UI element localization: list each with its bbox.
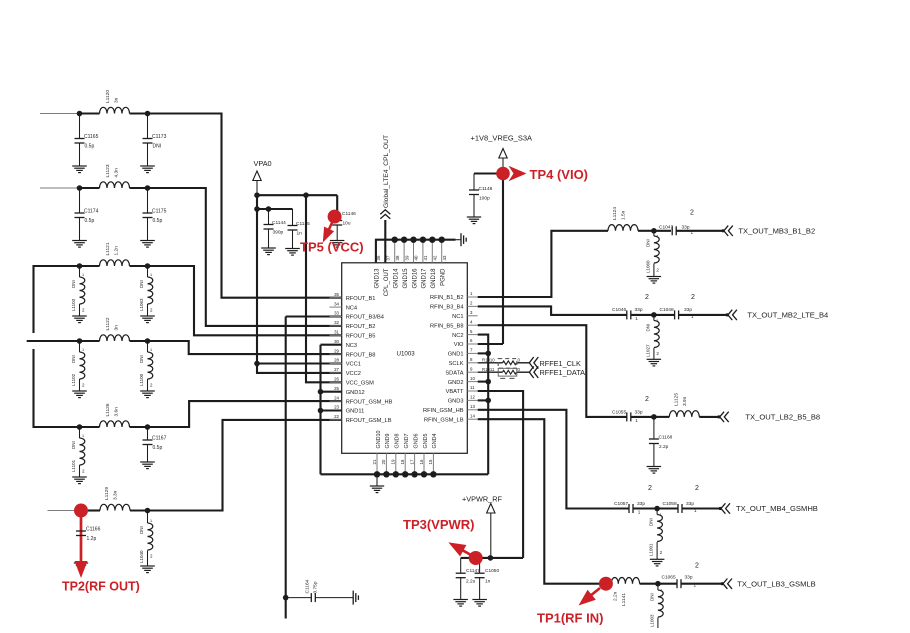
svg-text:C1065: C1065 (662, 575, 676, 581)
node row1 right junction (145, 111, 151, 117)
svg-text:15: 15 (428, 459, 433, 464)
svg-text:0.5p: 0.5p (85, 218, 95, 224)
wire +1V8 stem (502, 158, 504, 174)
node row4 right junction (145, 338, 151, 344)
wire RFIN_GSM_LB pin14 to net5 (478, 419, 612, 584)
ground bottom bus (370, 486, 384, 493)
svg-text:2.2n: 2.2n (612, 591, 618, 601)
wire top ground bus (376, 240, 456, 263)
wire +VPWR stem (490, 513, 492, 558)
svg-text:DNI: DNI (139, 280, 144, 288)
svg-text:C1050: C1050 (485, 568, 499, 574)
wire to VCC2 pin27 (257, 364, 342, 373)
svg-text:23: 23 (334, 405, 339, 410)
wire VBATT pin11 to +VPWR (478, 391, 523, 558)
svg-text:GND8: GND8 (395, 434, 401, 449)
inductor L1103 (79, 266, 81, 277)
svg-text:GND18: GND18 (431, 268, 437, 289)
capacitor C1055 (627, 412, 631, 421)
node net2 junction (651, 312, 657, 318)
svg-text:TP2(RF OUT): TP2(RF OUT) (62, 580, 140, 594)
inductor L1121 (100, 260, 130, 266)
svg-text:NC2: NC2 (452, 333, 463, 339)
pin 23 GND11 (330, 410, 342, 412)
svg-text:29: 29 (334, 348, 339, 353)
pin 32 RFOUT_B2 (330, 325, 342, 327)
svg-text:1: 1 (638, 510, 641, 515)
wire net4 (633, 507, 657, 509)
svg-text:GND1: GND1 (448, 352, 464, 358)
svg-text:L1102: L1102 (71, 373, 76, 386)
node net4 junction (654, 506, 660, 512)
ground (140, 462, 155, 469)
svg-text:0.5p: 0.5p (153, 218, 163, 224)
node top bus pin38 (392, 237, 398, 243)
test point TP4 marker (496, 167, 510, 181)
svg-text:C1047: C1047 (659, 224, 673, 230)
capacitor C1174 (79, 188, 81, 213)
capacitor C1148 (473, 174, 475, 191)
node top bus pin41 (420, 237, 426, 243)
svg-text:DNI: DNI (71, 441, 76, 449)
wire RFIN_B3_B4 pin2 to net2 (478, 306, 627, 315)
svg-text:DNI: DNI (645, 239, 650, 247)
svg-text:GND3: GND3 (448, 399, 464, 405)
ground (650, 559, 665, 566)
svg-text:1: 1 (150, 348, 152, 352)
node C1144 tap (266, 206, 272, 212)
svg-text:C1164: C1164 (305, 579, 311, 593)
svg-text:2.2u: 2.2u (466, 578, 476, 584)
pin 1 RFIN_B1_B2 (467, 296, 477, 298)
inductor L1001 (656, 509, 658, 515)
wire to VCC_GSM pin26 (306, 195, 342, 382)
svg-text:39: 39 (404, 255, 409, 260)
wire RFIN_GSM_HB pin13 to net4 (478, 410, 629, 509)
pin 17 GND6 (414, 453, 416, 474)
capacitor C1145 (292, 209, 294, 226)
svg-text:L1060: L1060 (645, 260, 650, 273)
ground (467, 217, 481, 224)
svg-text:0.75p: 0.75p (313, 581, 319, 593)
svg-text:RFIN_B3_B4: RFIN_B3_B4 (430, 305, 464, 311)
svg-text:RFOUT_B5: RFOUT_B5 (346, 334, 376, 340)
svg-text:41: 41 (423, 255, 428, 260)
svg-text:2: 2 (695, 485, 699, 492)
svg-text:L1101: L1101 (71, 459, 76, 472)
inductor L1101 (79, 427, 81, 438)
node row3 left junction (77, 263, 83, 269)
wire row1 lead-in (40, 113, 80, 115)
pin 38 GND14 (394, 240, 396, 263)
svg-text:GND6: GND6 (413, 434, 419, 449)
svg-text:19: 19 (391, 459, 396, 464)
svg-text:1.2n: 1.2n (114, 246, 120, 256)
svg-text:27: 27 (334, 367, 339, 372)
svg-text:GND16: GND16 (412, 268, 418, 289)
wire to C1050 (479, 558, 481, 573)
pin 10 GND2 (467, 381, 477, 383)
off-page connector TX_OUT_LB3_GSMLB (723, 579, 732, 589)
svg-text:1: 1 (635, 418, 638, 423)
test point TP3 marker (469, 551, 483, 565)
svg-text:33p: 33p (635, 409, 643, 415)
svg-text:TX_OUT_MB2_LTE_B4: TX_OUT_MB2_LTE_B4 (747, 311, 828, 320)
node C1164 junction (283, 595, 289, 601)
inductor L1040 (147, 511, 149, 524)
op-amp U1003 body (342, 263, 468, 454)
svg-text:TP3(VPWR): TP3(VPWR) (403, 517, 475, 532)
svg-text:390p: 390p (273, 230, 284, 236)
test point TP3 arrow (462, 550, 472, 555)
pin 15 GND4 (432, 453, 434, 474)
svg-text:17: 17 (409, 459, 414, 464)
wire Global_LTE4_CPL_OUT to CPL_OUT pin37 (384, 220, 386, 263)
svg-text:DNI: DNI (71, 280, 76, 288)
svg-text:DNI: DNI (139, 526, 144, 534)
node top bus pin40 (410, 237, 416, 243)
inductor L1122 (100, 335, 130, 341)
ground (140, 566, 155, 573)
capacitor C1050 (475, 573, 485, 578)
pin 2 RFIN_B3_B4 (467, 305, 477, 307)
svg-text:RFOUT_B1: RFOUT_B1 (346, 296, 376, 302)
svg-text:18: 18 (400, 459, 405, 464)
pin 35 RFOUT_B1 (330, 297, 342, 299)
svg-text:C1167: C1167 (152, 436, 167, 442)
node top bus pin43 (439, 237, 445, 243)
wire GND3 pin12 branch (478, 399, 489, 401)
inductor L1129 (88, 509, 100, 511)
wire VPA0 rail right (257, 194, 337, 196)
off-page connector RFFE1_CLK (529, 357, 538, 369)
pin 8 SCLK (467, 362, 477, 364)
wire row4 main (80, 340, 100, 342)
node row1 left junction (77, 111, 83, 117)
wire row3 to RFOUT_B5 pin31 (148, 266, 342, 335)
svg-text:1: 1 (150, 273, 152, 277)
svg-text:1n: 1n (297, 231, 303, 237)
svg-text:C1145: C1145 (296, 221, 310, 227)
wire right ground rail (487, 353, 489, 474)
svg-text:VCC_GSM: VCC_GSM (346, 381, 374, 387)
wire GND1 pin7 branch (478, 352, 489, 354)
svg-text:2: 2 (691, 294, 695, 301)
node row2 right junction (145, 185, 151, 191)
svg-text:Global_LTE4_CPL_OUT: Global_LTE4_CPL_OUT (383, 135, 390, 208)
svg-text:RFOUT_B3/B4: RFOUT_B3/B4 (346, 315, 384, 321)
svg-text:RFIN_B5_B8: RFIN_B5_B8 (430, 323, 464, 329)
node row2 left junction (77, 185, 83, 191)
svg-text:C1055: C1055 (612, 409, 626, 415)
svg-text:3.6n: 3.6n (114, 407, 120, 417)
svg-text:10u: 10u (343, 221, 351, 227)
svg-text:TX_OUT_MB4_GSMHB: TX_OUT_MB4_GSMHB (736, 504, 818, 513)
test point TP4 arrow (509, 166, 527, 181)
svg-text:DNI: DNI (649, 518, 654, 526)
wire to top bus ground (456, 239, 462, 241)
svg-text:RFIN_GSM_LB: RFIN_GSM_LB (424, 417, 464, 423)
pin 27 VCC2 (330, 372, 342, 374)
svg-text:L1100: L1100 (139, 373, 144, 386)
capacitor C1173 (147, 114, 149, 139)
svg-text:TP5 (VCC): TP5 (VCC) (300, 240, 364, 255)
pin 29 RFOUT_B8 (330, 353, 342, 355)
node GND2 junction (485, 379, 491, 385)
svg-text:33p: 33p (686, 501, 694, 507)
svg-text:PGND: PGND (441, 268, 447, 286)
svg-text:GND15: GND15 (403, 268, 409, 289)
pin 41 GND17 (422, 240, 424, 263)
wire decoupling branch (257, 208, 293, 210)
wire bottom ground bus (321, 473, 489, 475)
wire GND2 pin10 branch (478, 381, 489, 383)
node bottom bus pin21 (374, 471, 380, 477)
svg-text:1n: 1n (485, 578, 491, 584)
ground sideways top bus (461, 233, 466, 246)
svg-text:DNI: DNI (139, 355, 144, 363)
svg-text:RFFE1_CLK: RFFE1_CLK (540, 359, 581, 368)
wire to C1164 (286, 597, 312, 599)
svg-text:25: 25 (334, 386, 339, 391)
wire left ground rail (319, 345, 321, 475)
pin 22 RFOUT_GSM_LB (330, 419, 342, 421)
svg-text:C1175: C1175 (152, 209, 167, 215)
svg-text:DNI: DNI (649, 593, 654, 601)
inductor L1100 (147, 341, 149, 352)
svg-text:GND5: GND5 (423, 434, 429, 449)
wire VIO rail up to TP4 (502, 174, 504, 345)
svg-text:C1165: C1165 (84, 134, 99, 140)
svg-text:C1144: C1144 (272, 220, 286, 226)
svg-text:33p: 33p (685, 575, 693, 581)
pin 36 GND13 (375, 240, 377, 263)
svg-text:L1063: L1063 (139, 298, 144, 311)
wire row5 main (80, 426, 100, 428)
svg-text:2: 2 (648, 485, 652, 492)
svg-text:33p: 33p (682, 224, 690, 230)
wire net5 to C1065 (658, 583, 677, 585)
pin 24 RFOUT_GSM_HB (330, 400, 342, 402)
wire net4 out (682, 507, 721, 509)
svg-text:43: 43 (442, 255, 447, 260)
pin 34 NC4 (330, 306, 342, 308)
wire row3 left branch down to row5 (34, 266, 80, 333)
svg-text:C1148: C1148 (479, 186, 493, 192)
svg-text:L1001: L1001 (649, 543, 654, 556)
capacitor C1144 (268, 209, 270, 225)
svg-text:TP1(RF IN): TP1(RF IN) (537, 611, 603, 626)
svg-text:TX_OUT_MB3_B1_B2: TX_OUT_MB3_B1_B2 (738, 227, 815, 236)
svg-text:L1141: L1141 (621, 593, 627, 606)
off-page connector RFFE1_DATA (529, 366, 538, 378)
capacitor C1058 (678, 504, 682, 513)
svg-text:RFOUT_B8: RFOUT_B8 (346, 352, 376, 358)
svg-text:L1125: L1125 (673, 393, 679, 406)
wire C1164 to ground (315, 597, 353, 599)
wire to C1148 (474, 172, 503, 174)
svg-text:33p: 33p (637, 501, 645, 507)
svg-text:RFIN_GSM_HB: RFIN_GSM_HB (423, 408, 464, 414)
node bottom bus pin17 (411, 471, 417, 477)
wire row1 to RFOUT_B1 pin35 (148, 114, 342, 298)
pin 14 RFIN_GSM_LB (467, 418, 477, 420)
capacitor C1047 (672, 226, 676, 235)
node row3 right junction (145, 263, 151, 269)
pin 13 RFIN_GSM_HB (467, 409, 477, 411)
svg-text:1: 1 (150, 519, 152, 523)
svg-text:33p: 33p (635, 307, 643, 313)
svg-text:SDATA: SDATA (445, 370, 463, 376)
svg-text:1.2p: 1.2p (87, 536, 97, 542)
inductor L1141 (611, 578, 639, 584)
svg-text:3.3n: 3.3n (113, 490, 119, 500)
svg-text:40: 40 (414, 255, 419, 260)
node +VPWR junction (488, 555, 494, 561)
svg-text:C1046: C1046 (612, 307, 626, 313)
wire VPA0 stem (256, 181, 258, 196)
svg-text:28: 28 (334, 358, 339, 363)
svg-text:1: 1 (82, 434, 84, 438)
svg-text:1: 1 (656, 319, 658, 323)
off-page connector TX_OUT_MB2_LTE_B4 (728, 310, 737, 320)
ground (72, 391, 87, 398)
svg-text:33: 33 (334, 311, 339, 316)
wire VPA0 rail down to VCC1 (256, 195, 258, 363)
pin 37 CPL_OUT (384, 240, 386, 263)
ground (647, 277, 662, 284)
wire net3 to L1125 (654, 416, 669, 418)
wire to C1147 (460, 558, 462, 573)
wire RFIN_B5_B8 pin4 to net3 (478, 325, 627, 417)
wire pin33 vertical to C1164 (285, 317, 287, 619)
svg-text:RFOUT_B2: RFOUT_B2 (346, 324, 376, 330)
inductor L1125 (669, 411, 699, 417)
pin 12 GND3 (467, 399, 477, 401)
inductor L1003 (657, 584, 659, 590)
pin 20 GND9 (385, 453, 387, 474)
svg-text:NC1: NC1 (452, 314, 463, 320)
svg-text:1.5n: 1.5n (621, 210, 627, 220)
svg-text:C1174: C1174 (84, 209, 99, 215)
svg-text:21: 21 (372, 459, 377, 464)
node GND3 junction (485, 398, 491, 404)
ground (285, 249, 300, 256)
svg-text:DNI: DNI (71, 355, 76, 363)
svg-text:C1168: C1168 (659, 435, 673, 441)
test point TP1 arrow (590, 588, 600, 596)
inductor L1102 (79, 341, 81, 352)
wire row4 left lead (27, 340, 80, 342)
svg-text:RFFE1_DATA: RFFE1_DATA (540, 368, 586, 377)
node net1 junction (651, 228, 657, 234)
svg-text:VCC1: VCC1 (346, 362, 361, 368)
capacitor C1046 (627, 310, 631, 319)
ground (330, 241, 345, 248)
wire RFOUT_B3/B4 pin33 branch (286, 315, 342, 317)
inductor L1120 (100, 107, 130, 113)
pin 9 SDATA (467, 371, 477, 373)
svg-text:CPL_OUT: CPL_OUT (384, 268, 390, 296)
ground (74, 563, 88, 570)
node VPA0 junction (254, 192, 260, 198)
node GND11 junction (318, 408, 324, 414)
pin 43 PGND (441, 240, 443, 263)
svg-text:NC3: NC3 (346, 343, 357, 349)
svg-text:L1129: L1129 (104, 487, 110, 500)
svg-text:22: 22 (334, 414, 339, 419)
svg-text:U1003: U1003 (397, 351, 416, 358)
capacitor C1166 (76, 531, 86, 536)
svg-text:3n: 3n (114, 97, 120, 103)
ground sideways C1164 (353, 591, 358, 605)
off-page connector TX_OUT_MB4_GSMHB (721, 503, 730, 513)
svg-text:L1120: L1120 (105, 90, 111, 103)
wire RFIN_B1_B2 pin1 to net1 (478, 231, 608, 297)
svg-text:GND17: GND17 (422, 268, 428, 289)
off-page connector TX_OUT_MB3_B1_B2 (724, 226, 733, 236)
svg-text:4.3n: 4.3n (114, 168, 120, 178)
node bottom bus pin18 (402, 471, 408, 477)
wire net5 (640, 583, 658, 585)
inductor L1123 (100, 182, 130, 188)
wire net3 out (699, 416, 719, 418)
off-page connector TX_OUT_LB2_B5_B8 (720, 412, 729, 422)
svg-text:1: 1 (656, 235, 658, 239)
svg-text:C1166: C1166 (86, 527, 101, 533)
svg-text:2: 2 (645, 294, 649, 301)
svg-text:1: 1 (660, 513, 662, 517)
inductor L1126 (100, 421, 130, 427)
svg-text:C1048: C1048 (660, 307, 674, 313)
svg-text:14: 14 (470, 413, 475, 418)
node net3 junction (651, 414, 657, 420)
pin 42 GND18 (431, 240, 433, 263)
wire to C1146 (336, 195, 338, 215)
svg-text:R1011: R1011 (482, 367, 495, 372)
node top bus pin42 (429, 237, 435, 243)
pin 4 RFIN_B5_B8 (467, 324, 477, 326)
svg-text:24: 24 (334, 395, 339, 400)
inductor L1027 (653, 315, 655, 321)
capacitor C1164 (311, 593, 315, 602)
pin 11 VBATT (467, 390, 477, 392)
pin 5 NC2 (467, 334, 477, 336)
capacitor C1165 (79, 114, 81, 139)
node bottom bus pin20 (383, 471, 389, 477)
svg-text:1: 1 (660, 589, 662, 593)
wire NC2 pin5 tie to ground rail (478, 335, 489, 354)
svg-text:VPA0: VPA0 (254, 159, 272, 168)
svg-text:SCLK: SCLK (449, 361, 464, 367)
node GND12 junction (318, 389, 324, 395)
svg-text:RFIN_B1_B2: RFIN_B1_B2 (430, 295, 464, 301)
svg-text:+VPWR_RF: +VPWR_RF (462, 495, 502, 504)
capacitor C1168 (653, 417, 655, 439)
svg-text:C1146: C1146 (342, 211, 356, 217)
wire net5 out (681, 583, 723, 585)
wire to VCC1 pin28 (257, 362, 342, 364)
ground (140, 241, 155, 248)
capacitor C1147 (456, 573, 466, 578)
svg-text:0.5p: 0.5p (85, 144, 95, 150)
svg-text:2: 2 (695, 563, 699, 570)
pin 30 NC3 (330, 344, 342, 346)
svg-text:2: 2 (645, 396, 649, 403)
wire GND11 pin23 branch (321, 409, 342, 411)
svg-text:C1173: C1173 (152, 134, 167, 140)
pin 39 GND15 (403, 240, 405, 263)
